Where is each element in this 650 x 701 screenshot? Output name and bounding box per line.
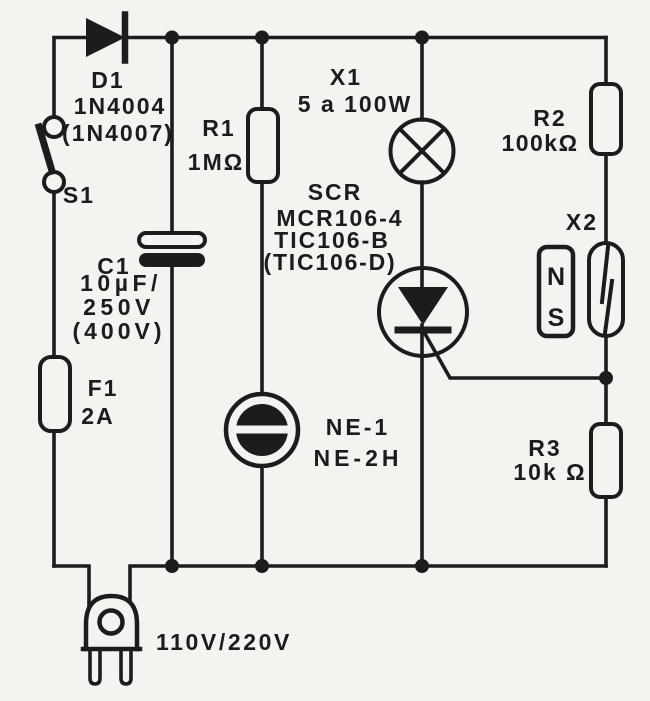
- wire R2 to reed switch X2: [604, 154, 608, 243]
- node bottom SCR junction dot: [415, 559, 429, 573]
- plug 110V/220V: [83, 596, 140, 684]
- node top R1 junction dot: [255, 31, 269, 45]
- svg-text:F1: F1: [88, 375, 119, 401]
- svg-text:110V/220V: 110V/220V: [156, 629, 292, 655]
- switch S1: [39, 117, 64, 192]
- wire top rail left segment (left rail corner to D1 anode): [54, 38, 86, 118]
- wire left rail bottom segment (F1 to bottom rail): [52, 431, 56, 566]
- wire left rail middle segment (S1 to F1): [52, 192, 56, 356]
- svg-text:D1: D1: [91, 67, 124, 93]
- reed switch X2: [589, 243, 623, 336]
- wire SCR gate to node G: [424, 332, 606, 378]
- svg-text:NE-2H: NE-2H: [313, 445, 402, 471]
- resistor R3: [591, 424, 621, 497]
- wire bottom rail left segment to plug: [54, 566, 89, 607]
- svg-text:1N4004: 1N4004: [74, 93, 167, 119]
- resistor R2: [591, 84, 621, 154]
- wire column C1 lower segment: [170, 267, 174, 566]
- svg-text:S1: S1: [63, 182, 95, 208]
- wire lamp X1 to SCR: [420, 182, 424, 290]
- svg-text:X2: X2: [566, 209, 598, 235]
- svg-text:(1N4007): (1N4007): [62, 120, 174, 146]
- wire column C1 upper segment: [170, 38, 174, 234]
- svg-text:250V: 250V: [83, 294, 155, 320]
- neon lamp NE-1: [226, 394, 298, 466]
- svg-text:2A: 2A: [81, 403, 114, 429]
- wire column R1 upper segment: [260, 38, 264, 110]
- node G junction dot: [599, 371, 613, 385]
- svg-text:5 a 100W: 5 a 100W: [298, 91, 412, 117]
- svg-text:R3: R3: [528, 435, 561, 461]
- svg-text:R1: R1: [202, 115, 235, 141]
- wire column R1 to NE lamp: [260, 182, 264, 394]
- lamp X1: [391, 120, 454, 183]
- svg-text:(400V): (400V): [72, 318, 165, 344]
- svg-text:(TIC106-D): (TIC106-D): [263, 249, 396, 275]
- svg-text:R2: R2: [533, 105, 566, 131]
- node bottom C1 junction dot: [165, 559, 179, 573]
- svg-text:NE-1: NE-1: [326, 414, 390, 440]
- wire top rail right segment (D1 cathode to right rail corner): [128, 36, 606, 40]
- resistor R1: [248, 109, 278, 182]
- wire column X1 upper segment: [420, 38, 424, 121]
- wire NE lamp to bottom rail: [260, 466, 264, 566]
- SCR MCR106-4: [379, 268, 467, 356]
- wire X2 to node G: [604, 336, 608, 424]
- capacitor C1: [139, 233, 205, 267]
- svg-text:SCR: SCR: [308, 179, 363, 205]
- fuse F1: [40, 357, 70, 431]
- node top X1 junction dot: [415, 31, 429, 45]
- node bottom NE junction dot: [255, 559, 269, 573]
- magnet N-S: [539, 247, 573, 336]
- svg-text:1MΩ: 1MΩ: [188, 149, 244, 175]
- wire right rail top segment: [604, 38, 608, 85]
- node top C1 junction dot: [165, 31, 179, 45]
- svg-text:N: N: [547, 263, 565, 291]
- svg-text:10k Ω: 10k Ω: [513, 459, 586, 485]
- svg-text:10µF/: 10µF/: [80, 270, 162, 296]
- svg-text:100kΩ: 100kΩ: [501, 130, 578, 156]
- svg-text:X1: X1: [330, 64, 362, 90]
- wire SCR cathode to bottom rail: [420, 356, 424, 566]
- wire right rail bottom segment: [604, 497, 608, 566]
- diode D1: [86, 15, 125, 61]
- wire bottom rail right segment from plug: [130, 566, 606, 601]
- svg-text:S: S: [548, 304, 565, 332]
